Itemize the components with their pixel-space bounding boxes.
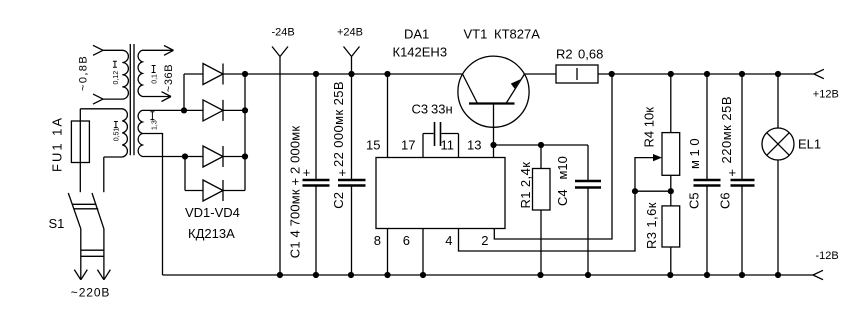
- svg-text:КД213А: КД213А: [188, 226, 235, 241]
- node wire base-R1-C4: [494, 144, 589, 146]
- pin 8 wire: [387, 229, 389, 276]
- wire top rail left: [245, 73, 463, 75]
- svg-text:EL1: EL1: [798, 137, 821, 152]
- wire R4-R3 junction: [635, 190, 671, 192]
- svg-text:0,51: 0,51: [113, 128, 120, 142]
- resistor R1 body: [533, 169, 551, 211]
- transistor VT1 emitter: [506, 74, 525, 104]
- svg-text:22 000мк 25В: 22 000мк 25В: [331, 81, 346, 167]
- arrow ~220V right: [97, 270, 110, 280]
- capacitor C3 plates: [435, 122, 441, 146]
- svg-text:м10: м10: [555, 156, 570, 179]
- svg-text:R2: R2: [556, 46, 573, 61]
- resistor R2 body: [556, 65, 598, 83]
- svg-text:+: +: [729, 165, 737, 180]
- capacitor C6 leads: [741, 74, 743, 275]
- diode VD2: [185, 100, 245, 121]
- transistor VT1 collector: [463, 74, 478, 104]
- junction dots bridge: [181, 107, 187, 113]
- arrow ~36V bottom: [162, 92, 172, 102]
- svg-text:~36В: ~36В: [163, 64, 175, 92]
- svg-text:С1 4 700мк + 2 000мк: С1 4 700мк + 2 000мк: [288, 126, 303, 259]
- svg-text:S1: S1: [49, 216, 65, 231]
- wire gauge mark 0,12: [113, 61, 117, 67]
- svg-text:-24В: -24В: [272, 27, 295, 39]
- winding secondary 1,3 (lower right): [138, 110, 185, 156]
- switch S1 pole 1: [68, 193, 81, 279]
- svg-text:С6: С6: [718, 192, 733, 209]
- svg-text:С3: С3: [412, 102, 429, 117]
- svg-text:6: 6: [403, 233, 410, 248]
- diode VD1: [184, 64, 245, 85]
- svg-text:220мк 25В: 220мк 25В: [719, 96, 734, 164]
- resistor R1 leads: [540, 145, 542, 275]
- svg-text:8: 8: [374, 233, 381, 248]
- capacitor C4 plates: [575, 181, 601, 188]
- lamp EL1 leads: [777, 74, 779, 275]
- svg-text:К142ЕН3: К142ЕН3: [393, 45, 448, 60]
- resistor R3 body: [662, 206, 680, 247]
- svg-text:+12В: +12В: [813, 88, 839, 100]
- junction dots R4 R3: [632, 188, 638, 194]
- pin 17 wire: [422, 134, 424, 158]
- transformer T1 core: [130, 44, 134, 155]
- svg-text:DA1: DA1: [404, 27, 429, 42]
- capacitor C5 leads: [706, 74, 708, 275]
- winding primary 0,12 (upper left): [103, 50, 128, 99]
- svg-text:0,12: 0,12: [113, 71, 120, 85]
- svg-text:13: 13: [467, 138, 481, 153]
- terminal fork ~0,8V bottom: [93, 94, 103, 104]
- resistor R3 leads: [670, 191, 672, 275]
- capacitor C1 plates: [303, 180, 330, 186]
- capacitor C4 lead top: [587, 145, 589, 181]
- svg-text:R1 2,4к: R1 2,4к: [518, 162, 533, 209]
- wire winding to switch pole 2: [103, 157, 105, 192]
- svg-text:FU1 1A: FU1 1A: [50, 116, 65, 172]
- svg-text:R4 10к: R4 10к: [642, 107, 657, 148]
- svg-text:R3 1,6к: R3 1,6к: [644, 202, 659, 249]
- transistor VT1 emitter arrow: [511, 79, 521, 88]
- wire winding tap to bottom rail: [142, 134, 162, 276]
- diode VD3: [185, 146, 245, 167]
- capacitor C1 leads: [315, 74, 317, 275]
- pin 15 wire: [387, 74, 389, 158]
- wire bridge right bus: [244, 74, 246, 191]
- wire bridge left bus top pair: [183, 74, 185, 110]
- pin 2 wire: [494, 74, 612, 239]
- fuse FU1 body: [71, 121, 89, 163]
- switch S1 pole 2: [92, 193, 104, 279]
- svg-text:1,3: 1,3: [151, 120, 158, 130]
- capacitor C6 plates: [731, 180, 755, 186]
- junction dots bottom rail: [277, 272, 283, 278]
- svg-text:~220В: ~220В: [71, 286, 111, 300]
- svg-text:4: 4: [445, 233, 452, 248]
- lamp EL1 cross: [767, 133, 790, 156]
- resistor R4 wiper: [635, 158, 655, 192]
- svg-text:КТ827А: КТ827А: [494, 27, 540, 42]
- resistor R2 power mark: [576, 68, 578, 80]
- svg-text:11: 11: [441, 138, 455, 153]
- wire bridge left bus bottom pair: [184, 157, 186, 191]
- svg-text:VT1: VT1: [464, 27, 488, 42]
- terminal -24V: [272, 47, 288, 276]
- arrow ~220V left: [74, 270, 87, 280]
- svg-text:+: +: [303, 165, 311, 180]
- wire gauge mark 0,51: [114, 122, 118, 128]
- fuse FU1 wire: [79, 109, 81, 192]
- svg-text:33н: 33н: [431, 102, 453, 117]
- wire gauge mark 1,3: [150, 112, 154, 120]
- svg-text:2: 2: [481, 233, 488, 248]
- svg-text:~0,8В: ~0,8В: [78, 55, 90, 91]
- svg-text:15: 15: [366, 138, 380, 153]
- IC DA1 body: [376, 158, 505, 229]
- resistor R4 leads: [670, 74, 672, 191]
- capacitor C5 plates: [694, 180, 721, 186]
- pin 13 / base wire: [493, 104, 495, 158]
- plug double bar: [81, 250, 104, 256]
- transistor VT1 base bar: [469, 102, 515, 104]
- diode VD4: [185, 180, 245, 201]
- capacitor C3 bracket: [423, 133, 459, 135]
- svg-text:-12В: -12В: [816, 250, 839, 262]
- svg-text:С5: С5: [687, 192, 702, 209]
- pin 6 wire: [422, 229, 424, 276]
- terminal fork ~0,8V top: [93, 45, 103, 55]
- winding primary 0,51 (lower left): [80, 109, 127, 157]
- svg-text:С2: С2: [331, 192, 346, 209]
- resistor R4 wiper arrowhead: [653, 154, 662, 161]
- arrow ~36V top: [164, 46, 174, 56]
- pin 11 wire: [458, 134, 460, 158]
- capacitor C2 leads: [351, 74, 353, 275]
- winding secondary 0,1 (upper right, ~36V): [138, 50, 164, 96]
- terminal -12V: [813, 270, 823, 279]
- junction dots base node: [490, 142, 496, 148]
- terminal +24V: [344, 47, 360, 75]
- lamp EL1 circle: [762, 128, 794, 160]
- capacitor C4 lead bottom: [587, 188, 589, 276]
- svg-text:м10: м10: [687, 135, 702, 169]
- resistor R4 body: [662, 133, 680, 176]
- capacitor C2 plates: [338, 180, 366, 186]
- svg-text:+24В: +24В: [337, 27, 363, 39]
- wire gauge mark 0,1: [152, 66, 156, 73]
- svg-text:0,68: 0,68: [578, 46, 603, 61]
- pin 4 wire: [459, 191, 636, 251]
- switch S1 link bars: [72, 204, 98, 209]
- svg-text:17: 17: [401, 138, 415, 153]
- svg-text:0,1: 0,1: [151, 74, 158, 84]
- wire top rail right: [525, 73, 814, 75]
- wire bottom rail: [163, 274, 814, 276]
- svg-text:С4: С4: [555, 189, 570, 206]
- svg-text:VD1-VD4: VD1-VD4: [185, 205, 240, 220]
- transistor VT1 circle: [458, 56, 529, 127]
- junction dots top rail: [242, 71, 248, 77]
- terminal +12V: [814, 69, 824, 78]
